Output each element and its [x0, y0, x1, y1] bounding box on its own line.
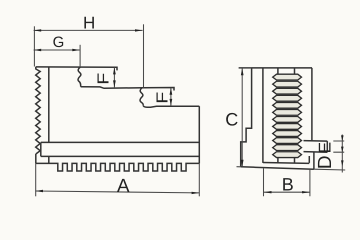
G arrows	[34, 49, 42, 51]
svg-text:G: G	[53, 34, 65, 51]
left view: step-2 break squiggle	[140, 88, 143, 106]
right view: stud core bottom	[278, 157, 295, 163]
left view: step-3 surface line	[143, 105, 199, 107]
svg-text:A: A	[117, 176, 130, 197]
svg-text:B: B	[282, 175, 294, 195]
left view: serrated gripping edge (zigzag)	[36, 67, 41, 154]
svg-text:F: F	[155, 92, 172, 104]
H/G left extension	[33, 26, 35, 66]
H right extension	[143, 24, 145, 87]
left view: step-2 surface line	[81, 87, 174, 91]
left view: right edge	[198, 106, 200, 163]
right view: right edge	[311, 68, 313, 141]
F1 dim line	[113, 67, 115, 87]
right view: base bottom	[241, 167, 314, 169]
svg-text:H: H	[83, 14, 95, 33]
B dim line	[264, 191, 310, 193]
A left extension	[35, 163, 37, 196]
right view: left stepped edge	[241, 68, 252, 167]
right view: top line	[239, 67, 312, 69]
left view: lower left edge	[35, 154, 37, 163]
H arrows	[34, 29, 42, 31]
right view: stud core top	[278, 69, 295, 75]
right view: threaded stud coils	[273, 74, 302, 157]
D/E dim line	[341, 135, 343, 173]
left view: tongue band	[41, 142, 200, 156]
G dim line	[34, 49, 80, 51]
right view: tongue block (E)	[304, 141, 328, 153]
right view: slot bottom	[263, 162, 309, 165]
arrowheads	[34, 29, 344, 194]
D/E arrowheads	[341, 135, 344, 141]
svg-text:D: D	[315, 155, 336, 169]
D/E ticks	[314, 141, 345, 170]
C dim line	[241, 68, 243, 166]
svg-text:F: F	[96, 72, 113, 84]
left view: bottom face with rack teeth	[36, 163, 200, 171]
svg-text:E: E	[315, 142, 334, 154]
H dim line	[34, 29, 143, 31]
C top tick	[239, 67, 252, 69]
F1 arrows	[113, 67, 116, 74]
C arrows	[241, 68, 244, 75]
A right extension	[198, 163, 200, 196]
F2 dim line	[170, 88, 172, 106]
left view: step-1 break squiggle	[78, 67, 81, 87]
left view: inner vertical of serrated face	[48, 67, 50, 163]
right view: base right edge	[313, 152, 315, 169]
G right extension	[79, 45, 81, 67]
A arrows	[35, 190, 43, 192]
B extensions	[264, 168, 310, 196]
left view: top surface line	[36, 67, 117, 71]
dimension lines	[34, 24, 346, 196]
svg-text:C: C	[225, 110, 238, 130]
right view: slot right edge (short)	[308, 156, 310, 163]
A dim line	[35, 191, 199, 193]
B arrows	[264, 191, 272, 193]
F2 arrows	[170, 88, 173, 95]
C bottom tick	[237, 166, 241, 168]
right view: slot left edge	[262, 68, 264, 163]
